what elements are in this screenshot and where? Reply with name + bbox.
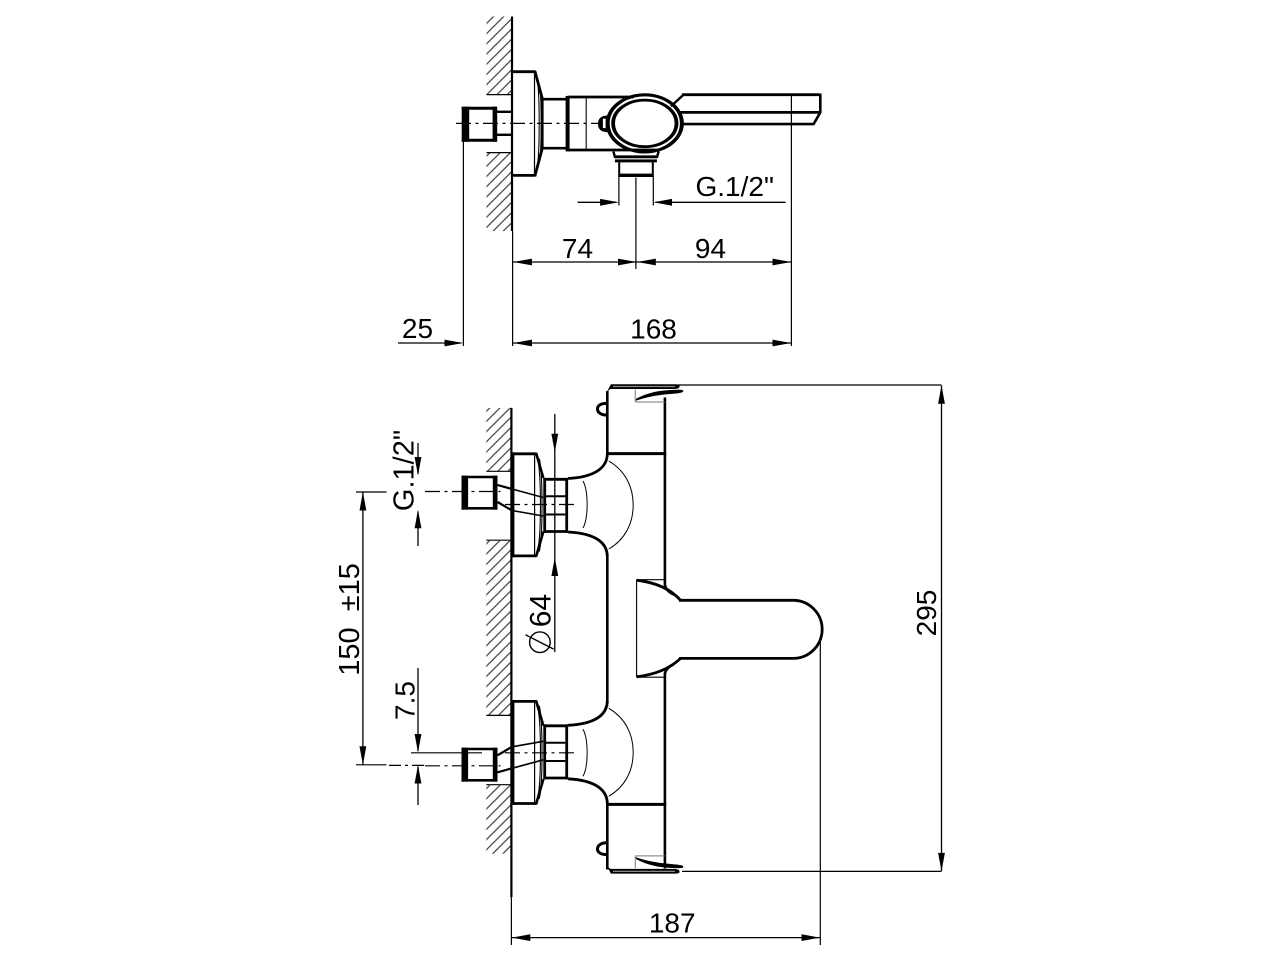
union neck: [542, 96, 569, 151]
extension line from nut left edge (for 25 dim): [462, 142, 464, 347]
union axis tick for 7.5 dim: [411, 752, 482, 754]
body side screw ear: [597, 403, 607, 415]
handle knob inner oval: [613, 100, 676, 147]
wall hatching band 2: [486, 540, 511, 715]
boss silhouette arc large: [609, 461, 633, 549]
inlet pipe centerline: [425, 491, 501, 493]
outlet stack below body: [613, 151, 658, 205]
mixer body right edge: [664, 398, 667, 869]
spout tube top edge: [679, 599, 793, 602]
lever crescent: [635, 390, 684, 401]
cap top bar: [607, 384, 680, 391]
body edge blend lower: [665, 664, 674, 674]
svg-text:150 ±15: 150 ±15: [334, 563, 366, 676]
dim 7.5: [415, 668, 422, 805]
inlet nut: [462, 476, 498, 510]
spout tube bottom edge: [679, 657, 793, 660]
dim 187: [512, 934, 820, 941]
extension line 295 bottom: [682, 870, 942, 872]
wall face line: [510, 408, 512, 897]
wall extension line to 187 dim: [510, 897, 512, 945]
extension line 187 right: [819, 640, 821, 945]
dim line 25 with outside arrow: [398, 340, 463, 347]
eccentric pipe taper: [498, 485, 544, 516]
handle knob outer oval: [608, 95, 682, 152]
body edge blend upper: [665, 585, 674, 595]
wall hatching band 1: [486, 408, 511, 471]
dim diameter 64: [551, 414, 558, 652]
svg-text:94: 94: [695, 233, 726, 264]
union centerline: [505, 504, 577, 506]
hidden base lines: [636, 580, 638, 678]
wall hatching lower band: [487, 153, 512, 232]
fillet union to body (upper): [568, 455, 607, 479]
dim 150 +-15: [356, 492, 387, 765]
hidden lever edges (gray): [634, 390, 636, 403]
dim 295: [938, 385, 945, 871]
mixer body left edge: [606, 391, 609, 870]
extension line from spout end: [790, 95, 792, 347]
temperature button on body: [598, 116, 608, 133]
svg-text:64: 64: [525, 594, 558, 627]
svg-text:G.1/2": G.1/2": [389, 430, 421, 511]
cap separation line top: [606, 452, 666, 455]
svg-text:295: 295: [911, 590, 942, 637]
bottom cap with lever tip (mirrored): [597, 843, 683, 874]
diameter symbol: [526, 632, 554, 653]
nut-to-wall step collar: [497, 112, 512, 135]
dim G.1/2" (top view): [578, 199, 786, 206]
extension line 295 top: [678, 384, 942, 386]
centerline axis (dash-dot): [456, 122, 610, 124]
flare upper: [637, 580, 681, 600]
wall extension line down to 168 dim: [512, 231, 514, 346]
wall supply nut: [462, 107, 498, 142]
dim line 168: [513, 340, 791, 347]
mixer body (side view): [568, 97, 660, 150]
pipe axis extension bottom inlet: [389, 764, 424, 766]
svg-text:G.1/2": G.1/2": [696, 171, 774, 202]
dim line 74 / 94: [513, 259, 791, 266]
wall flange: [512, 452, 543, 557]
spout rounded end: [793, 600, 822, 658]
flare lower: [637, 658, 681, 676]
fillet union to body (lower): [568, 532, 607, 556]
cap separation line bottom: [606, 803, 666, 806]
wall face line: [511, 17, 513, 232]
wall hatching band 3: [486, 785, 511, 854]
extension line from outlet center: [635, 178, 637, 270]
dim G.1/2" (bottom view): [415, 443, 422, 546]
svg-text:187: 187: [649, 908, 696, 939]
bottom inlet union assembly (mirrored): [425, 700, 633, 805]
union nut: [543, 478, 568, 533]
escutcheon flange plate: [512, 71, 542, 177]
svg-text:74: 74: [562, 233, 593, 264]
svg-text:25: 25: [402, 313, 433, 344]
wall hatching upper band: [487, 17, 512, 95]
spout (side view): [671, 94, 820, 125]
svg-text:7.5: 7.5: [390, 681, 421, 720]
top cap with lever tip: [597, 384, 683, 415]
boss silhouette arc small: [583, 481, 587, 528]
svg-text:168: 168: [630, 314, 677, 345]
spout (plan view): [637, 580, 823, 678]
top inlet union assembly: [425, 452, 633, 557]
